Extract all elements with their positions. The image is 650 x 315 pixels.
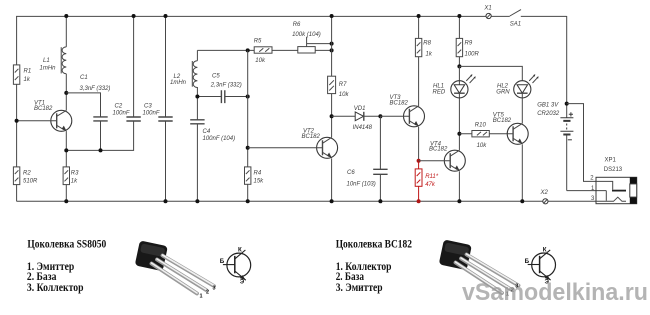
resistor R4: [245, 167, 265, 184]
node C2 top: [132, 14, 136, 18]
svg-text:R10: R10: [475, 123, 487, 129]
svg-text:2: 2: [206, 290, 209, 296]
node C3 bottom: [164, 199, 168, 203]
svg-text:10nF (103): 10nF (103): [347, 182, 376, 188]
node L1 top: [64, 14, 68, 18]
svg-text:R9: R9: [465, 41, 473, 47]
svg-text:3. Эмиттер: 3. Эмиттер: [336, 282, 383, 294]
svg-text:1mHn: 1mHn: [170, 80, 187, 86]
node HL1 bottom / R10 left: [457, 132, 461, 136]
svg-text:R1: R1: [24, 68, 32, 74]
LED HL1: [433, 66, 476, 133]
node VT5 emitter bottom: [520, 199, 524, 203]
node C6 bottom: [378, 199, 382, 203]
resistor R6: [292, 22, 332, 53]
node R7 top bus: [330, 14, 334, 18]
resistor R8: [415, 16, 432, 58]
node R3 bottom: [64, 199, 68, 203]
node L1 bottom: [64, 91, 68, 95]
capacitor C5: [210, 74, 242, 104]
svg-text:10k: 10k: [255, 58, 266, 64]
resistor R11 (red): [415, 161, 439, 202]
wire VT3 emitter down: [418, 127, 420, 161]
svg-text:1k: 1k: [426, 52, 433, 58]
wire top bus: [16, 15, 567, 17]
transistor symbol BC182: [525, 246, 556, 285]
node R9 bottom / HL2 branch: [457, 64, 461, 68]
svg-text:3. Коллектор: 3. Коллектор: [27, 282, 84, 294]
svg-text:C3: C3: [144, 104, 152, 110]
svg-text:47k: 47k: [425, 182, 436, 188]
svg-text:3,3nF (332): 3,3nF (332): [80, 86, 111, 92]
wire VT2 base column x=247.7: [247, 50, 249, 201]
node VT2 emitter bottom: [330, 199, 334, 203]
transistor VT2: [248, 129, 338, 159]
svg-text:BC182: BC182: [302, 134, 321, 140]
svg-text:X2: X2: [540, 190, 549, 196]
node VD1 anode / R7 bottom: [330, 114, 334, 118]
wire R7 column x=331.6: [331, 16, 333, 201]
terminal X2: [540, 190, 549, 204]
wire VT5 emitter down: [521, 145, 523, 202]
svg-text:C5: C5: [212, 74, 220, 80]
node VT4 emitter bottom: [457, 199, 461, 203]
svg-text:Цоколевка BC182: Цоколевка BC182: [336, 239, 412, 251]
node R9 top: [457, 14, 461, 18]
node VT2 base: [246, 146, 250, 150]
resistor R1: [13, 65, 31, 84]
inductor L2: [170, 61, 197, 88]
svg-text:100nF: 100nF: [143, 111, 160, 117]
resistor R9: [456, 16, 479, 66]
terminal X1: [483, 6, 491, 19]
svg-text:BC182: BC182: [34, 106, 53, 112]
svg-text:GRN: GRN: [496, 89, 510, 95]
node R11 bottom (red): [417, 199, 421, 203]
svg-text:BC182: BC182: [390, 101, 409, 107]
wire VT3 collector to R8: [418, 57, 420, 106]
svg-text:15k: 15k: [254, 178, 265, 184]
svg-text:Э: Э: [240, 279, 245, 286]
node emitter junction: [64, 148, 68, 152]
capacitor C4: [190, 120, 235, 142]
node VT1 base on left rail: [15, 119, 19, 123]
TO-92 photo BC182: [439, 239, 519, 297]
svg-text:Б: Б: [220, 258, 225, 265]
node R8 top: [417, 14, 421, 18]
svg-text:R3: R3: [71, 171, 79, 177]
svg-text:CR2032: CR2032: [537, 111, 560, 117]
svg-text:R5: R5: [254, 39, 262, 45]
svg-text:R2: R2: [23, 171, 31, 177]
node VD1 cathode / C6 top: [378, 114, 382, 118]
diode VD1 IN4148: [353, 106, 373, 131]
node C1 bottom: [99, 148, 103, 152]
svg-text:1mHn: 1mHn: [40, 66, 57, 72]
TO-92 photo SS8050: [135, 240, 216, 299]
svg-text:C1: C1: [80, 75, 88, 81]
capacitor C6: [347, 116, 388, 201]
svg-text:C6: C6: [347, 170, 355, 176]
LED HL2: [496, 74, 538, 98]
svg-text:X1: X1: [483, 6, 491, 12]
svg-text:100nF: 100nF: [113, 111, 130, 117]
battery GB1 CR2032: [537, 103, 573, 140]
svg-text:GB1 3V: GB1 3V: [537, 103, 559, 109]
svg-text:100R: 100R: [465, 52, 480, 58]
svg-text:3: 3: [213, 286, 216, 292]
wire VT5 collector to HL2: [521, 98, 523, 124]
wire VT4 emitter: [458, 171, 460, 201]
capacitor C2: [113, 16, 141, 121]
svg-text:10k: 10k: [339, 92, 350, 98]
transistor VT5: [493, 113, 528, 145]
svg-text:BC182: BC182: [493, 118, 512, 124]
svg-text:XP1: XP1: [605, 158, 617, 164]
svg-text:100nF (104): 100nF (104): [203, 136, 236, 142]
svg-text:К: К: [238, 247, 242, 254]
capacitor C1: [80, 75, 111, 121]
transistor VT4: [419, 141, 466, 171]
wire right rail / battery column: [567, 16, 607, 201]
svg-text:BC182: BC182: [429, 147, 448, 153]
svg-text:vSamodelkina.ru: vSamodelkina.ru: [462, 279, 648, 306]
inductor L1: [40, 47, 67, 74]
wire XP1 pin2 branch: [567, 104, 596, 182]
svg-text:Цоколевка SS8050: Цоколевка SS8050: [27, 239, 106, 251]
svg-text:SA1: SA1: [510, 22, 521, 28]
resistor R7: [328, 76, 350, 98]
resistor R3: [63, 167, 79, 185]
svg-text:1: 1: [200, 294, 203, 300]
svg-text:10k: 10k: [477, 143, 488, 149]
svg-text:R11*: R11*: [425, 174, 439, 180]
transistor VT1: [17, 101, 72, 132]
wire R5 row y=50: [197, 49, 331, 51]
switch SA1: [510, 10, 521, 28]
svg-text:R7: R7: [339, 82, 347, 88]
resistor R5: [254, 39, 272, 65]
wire VT4 collector: [458, 134, 460, 151]
svg-text:RED: RED: [433, 89, 446, 95]
wire C5 row y=96.5: [197, 96, 247, 98]
wire bottom bus: [17, 200, 597, 202]
node R11 top (red): [417, 159, 421, 163]
node C5 right: [246, 95, 250, 99]
svg-text:510R: 510R: [23, 178, 38, 184]
resistor R2: [13, 167, 38, 185]
node R5 left: [246, 48, 250, 52]
svg-text:IN4148: IN4148: [353, 125, 373, 131]
svg-text:C4: C4: [203, 129, 211, 135]
node C4 bottom: [195, 199, 199, 203]
svg-text:1k: 1k: [71, 178, 78, 184]
capacitor C3: [143, 16, 173, 201]
node L2 bottom: [195, 95, 199, 99]
svg-text:R8: R8: [423, 41, 431, 47]
resistor R10: [459, 123, 513, 150]
transistor VT3: [380, 95, 424, 127]
svg-text:DS213: DS213: [604, 167, 623, 173]
wire L2/C4 column x=197.1: [196, 50, 198, 201]
svg-text:L1: L1: [43, 58, 50, 64]
svg-text:R6: R6: [293, 22, 301, 28]
node R4 bottom: [246, 199, 250, 203]
wire VD1 row: [332, 115, 381, 117]
svg-text:R4: R4: [254, 171, 262, 177]
node R6 right: [330, 48, 334, 52]
node battery top branch: [565, 102, 569, 106]
node R6 leader: [330, 42, 334, 46]
connector XP1 DS213: [590, 158, 636, 204]
wire left rail: [16, 16, 18, 201]
node C3 top: [164, 14, 168, 18]
svg-text:2,3nF (332): 2,3nF (332): [210, 83, 242, 89]
wire collector column x=66.3: [65, 16, 67, 201]
svg-text:Б: Б: [525, 258, 530, 265]
svg-text:C2: C2: [115, 104, 123, 110]
svg-text:К: К: [543, 246, 547, 253]
svg-text:1k: 1k: [24, 77, 31, 83]
wire emitter row y=150.4: [66, 121, 133, 150]
wire HL2 branch top: [459, 66, 522, 80]
svg-text:VD1: VD1: [354, 106, 366, 112]
transistor symbol SS8050: [220, 247, 251, 286]
wire C1 branch: [66, 93, 100, 150]
